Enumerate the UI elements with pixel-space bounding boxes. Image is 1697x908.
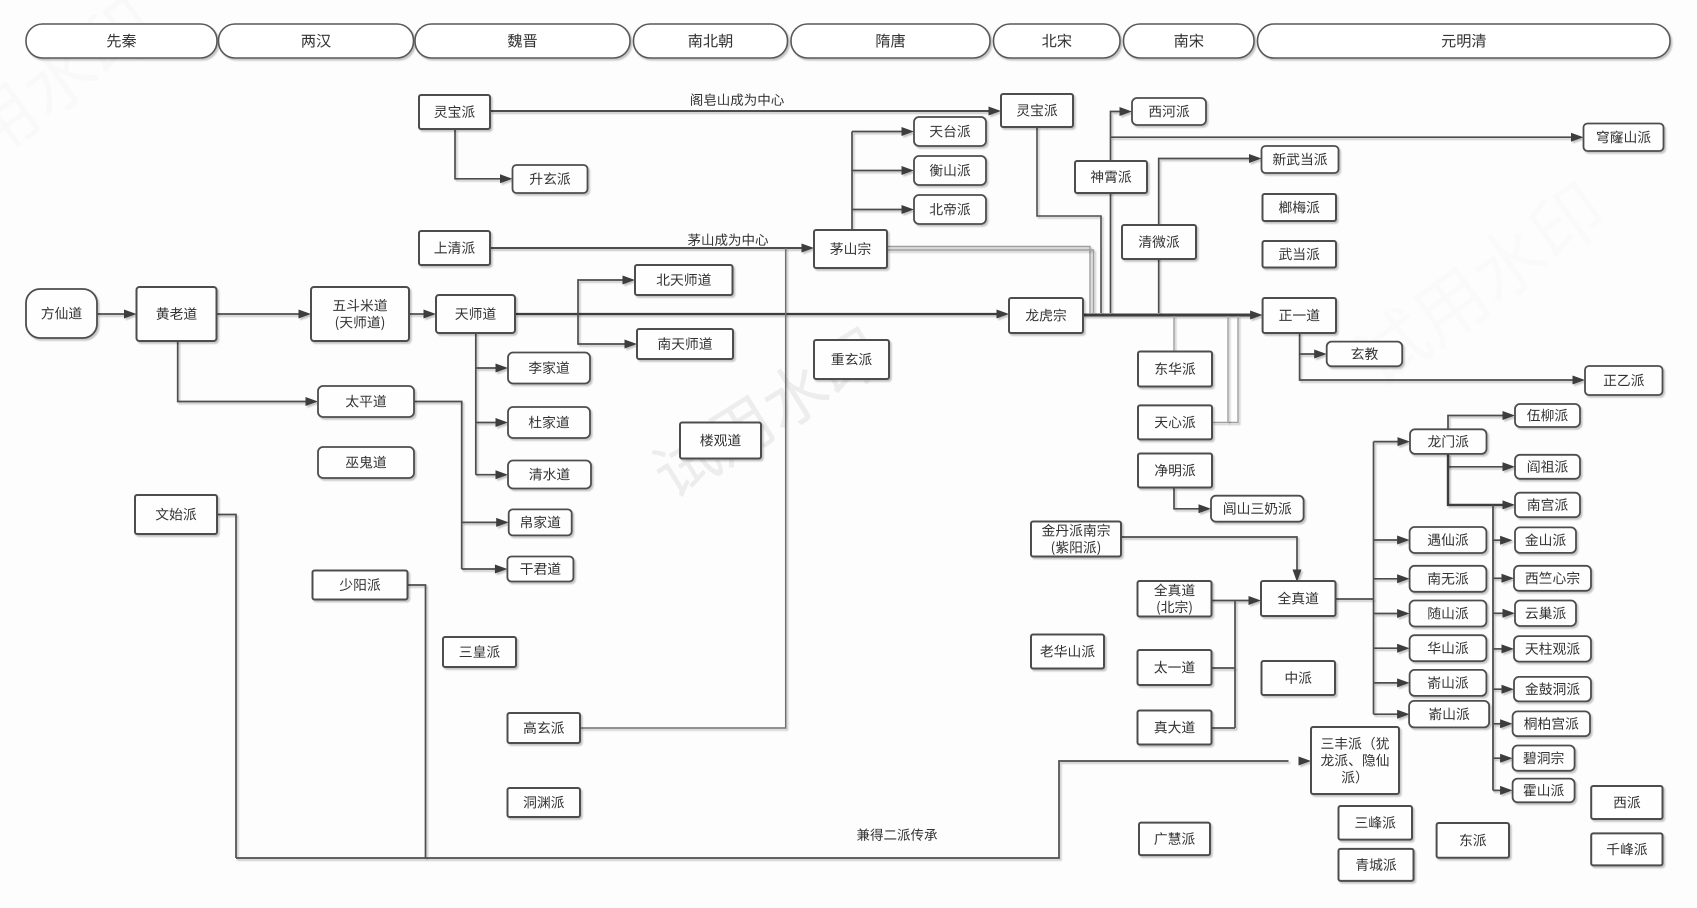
wire 少阳派 drop [408,585,426,858]
node dujiadao 杜家道 [508,407,590,438]
watermark 试用水印 right faint [1346,176,1610,393]
label 茅山成为中心 [688,233,768,246]
wire 正一道-玄教 [1300,333,1315,354]
wire 净明派-闾山三奶派 [1174,488,1200,509]
timeline pill 南宋 [1124,24,1255,58]
wire to 龙门派 [1374,441,1398,443]
wire 高玄派-上清派线 [580,248,786,728]
node laohuashanpai 老华山派 [1031,635,1104,669]
node beidipai 北帝派 [914,195,986,224]
node qingweipai 清微派 [1122,225,1196,259]
watermark 试用水印 center [646,322,887,503]
node langmeipai 榔梅派 [1263,194,1337,221]
node nangongpai 南宫派 [1515,493,1580,518]
node yanzupai 阎祖派 [1515,455,1580,479]
timeline pill 南北朝 [634,24,788,58]
node zhengyipai 正乙派 [1585,366,1663,395]
wire to 天台派 [852,131,902,133]
wire trunk-神霄派-西河派 [1111,112,1120,314]
node lvshansannaipai 闾山三奶派 [1211,496,1304,522]
wire 太平道 elbow [414,402,462,570]
node zhengyidao 正一道 [1263,298,1336,333]
wire trunk 龙虎宗-正一道 [1083,314,1251,317]
node shaoyangpai 少阳派 [313,571,408,600]
timeline pill 隋唐 [791,24,990,58]
node tongbaigongpai 桐柏宫派 [1513,711,1590,736]
wire to 清水道 [476,474,496,476]
node hengshanpai 衡山派 [914,156,986,185]
node shangqingpai 上清派 [419,231,490,265]
wire 上清派-茅山宗 [490,247,802,249]
node huoshanpai 霍山派 [1513,779,1575,803]
wire 全真道-spine [1335,598,1374,600]
node taipingdao 太平道 [318,386,414,417]
wire to 西竺心宗 [1493,577,1502,579]
wire 龙门派-南宫派 [1448,454,1503,505]
wire 灵宝派R-trunk [1037,127,1101,313]
wire to 碧洞宗 [1493,757,1501,759]
node guanghuipai 广慧派 [1139,823,1210,856]
node jindanpai 金丹派南宗 [1031,522,1121,557]
node wuguidao 巫鬼道 [318,447,414,478]
node lingbaopaiR 灵宝派 [1001,94,1073,127]
wire 全真道北宗-全真道 [1211,600,1249,602]
node ganjundao 干君道 [507,557,573,582]
node sanfengpai 三丰派（犹 [1311,727,1399,794]
node bidongzong 碧洞宗 [1513,746,1575,771]
node longhuzong 龙虎宗 [1009,298,1083,333]
wire 天心派-trunk b [1227,316,1229,422]
wire 黄老道-太平道 [178,341,306,402]
node qingshuidao 清水道 [508,461,591,489]
node tiantaipai 天台派 [914,117,986,146]
node jingudongpai 金鼓洞派 [1514,677,1591,702]
wire 茅山宗-trunk a [887,247,1090,314]
wire 茅山宗 up [851,132,853,231]
node gaoxuanpai 高玄派 [508,713,581,743]
timeline pill 两汉 [219,24,414,58]
wire bottom long [236,761,1289,858]
label 兼得二派传承 [857,828,937,841]
node tianxinpai 天心派 [1138,405,1212,439]
wire to 南无派 [1374,578,1398,580]
wire 天师道-南天师道 [578,314,626,344]
wire 五斗米道-天师道 [409,313,425,315]
wire to 云巢派 [1493,612,1503,614]
node shengxuanpai 升玄派 [513,165,588,193]
wire to 李家道 [476,367,496,369]
wire 太一道 elbow [1212,667,1236,669]
node jingmingpai 净明派 [1138,454,1212,488]
wire 太一真大 vertical [1234,601,1236,729]
node bojiadao 帛家道 [509,509,572,535]
node xihepai 西河派 [1132,98,1206,125]
wire 龙门派-阎祖派 [1448,454,1503,467]
wire to 金鼓洞派 [1493,688,1502,690]
node zhendadao 真大道 [1138,711,1212,745]
node beitianshidao 北天师道 [635,265,733,295]
node wenshipai 文始派 [135,495,217,534]
wire 黄老道-五斗米道 [217,313,301,315]
node fangxiandao 方仙道 [26,289,97,338]
wire trunk 天师道-龙虎宗 [515,313,998,315]
node taiyidao 太一道 [1138,650,1212,685]
node qianfengpai 千峰派 [1591,833,1662,865]
node lingbaopaiL 灵宝派 [419,95,490,129]
node donghuapai 东华派 [1138,352,1212,387]
node wudoumidao 五斗米道 [311,287,409,341]
wire to 衡山派 [852,170,902,172]
node shenxiaopai 神霄派 [1075,161,1147,193]
node chongxuanpai 重玄派 [814,340,889,379]
node louguandao 楼观道 [680,423,761,459]
wire to 北帝派 [852,209,902,211]
node wudangpai 武当派 [1263,241,1337,268]
node yunchaopai 云巢派 [1515,601,1576,627]
node sanhuangpai 三皇派 [443,637,516,667]
node dongpai 东派 [1437,823,1509,858]
wire 正一道-正乙派 [1300,354,1573,380]
wire to 桐柏宫派 [1493,723,1501,725]
node quanzhendao 全真道 [1261,581,1336,616]
wire 方仙道-黄老道 [97,313,125,315]
node longmenpai 龙门派 [1410,429,1487,454]
label 阁皂山成为中心 [691,93,784,106]
node huanglaodao 黄老道 [137,287,217,341]
node yuxianpai 遇仙派 [1410,527,1487,553]
node tianzhuguanpai 天柱观派 [1514,636,1591,662]
wire to 随山派 [1374,613,1398,615]
wire to 帛家道 [462,521,497,523]
wire 东华派-trunk [1173,316,1175,352]
wire 文始派 drop [217,515,236,859]
wire 天心派-trunk [1212,316,1238,422]
node xipai 西派 [1591,786,1662,819]
wire to 遇仙派 [1374,539,1398,541]
node nantianshidao 南天师道 [637,329,733,359]
node zhongpai 中派 [1262,661,1336,695]
wire 灵宝派-升玄派 [455,129,501,179]
wire to 华山派 [1374,647,1398,649]
wire to 穹窿山派 [1111,136,1572,138]
node huashanpai 华山派 [1410,635,1487,661]
wire trunk-清微派-新武当派 [1159,159,1249,314]
wire 真大道 elbow [1212,727,1236,729]
node jinshanpai 金山派 [1515,527,1576,553]
wire 天师道 drop [475,333,477,475]
wire to 嵛山派2 [1374,713,1398,715]
node xinwudangpai 新武当派 [1262,146,1339,173]
wire to 嵛山派 [1374,682,1398,684]
node dongyuanpai 洞渊派 [508,788,581,817]
wire to 霍山派 [1493,789,1501,791]
node maoshanzong 茅山宗 [814,230,887,268]
arrowheads [124,107,1585,795]
node yushanpai2 嵛山派 [1409,701,1489,728]
wire to 杜家道 [476,422,496,424]
node lijiadao 李家道 [508,353,590,384]
node nanwupai 南无派 [1410,566,1487,592]
wire to 天柱观派 [1493,648,1502,650]
node sanfengpai2 三峰派 [1339,806,1413,840]
node suishanpai 随山派 [1410,601,1487,627]
node qingchengpai 青城派 [1339,849,1414,881]
wire 龙门 spine [1492,505,1494,791]
wire 全真 spine [1373,442,1375,715]
node tianshidao 天师道 [436,295,515,333]
node yushanpai1 嵛山派 [1410,670,1487,696]
wire 金丹派南宗-全真道 [1122,537,1297,570]
node xizhuxinzong 西竺心宗 [1514,566,1591,591]
timeline pill 先秦 [26,24,217,58]
node xuanjiao 玄教 [1327,342,1403,367]
node qionglongshanpai 穹窿山派 [1584,124,1664,152]
wire to 金山派 [1493,539,1501,541]
wire to 干君道 [462,568,496,570]
wire 灵宝派-灵宝派 long [490,110,989,112]
timeline pill 元明清 [1258,24,1671,58]
wire 茅山宗-trunk b [887,250,1094,313]
node wuliupai 伍柳派 [1515,404,1580,427]
wire 天师道-北天师道 [578,280,624,314]
timeline pill 北宋 [994,24,1121,58]
timeline pill 魏晋 [415,24,630,58]
node quanzhenbei 全真道 [1138,581,1212,617]
watermark 试用水印 top-left faint [0,0,160,208]
wire 龙门派-伍柳派 [1448,416,1503,430]
